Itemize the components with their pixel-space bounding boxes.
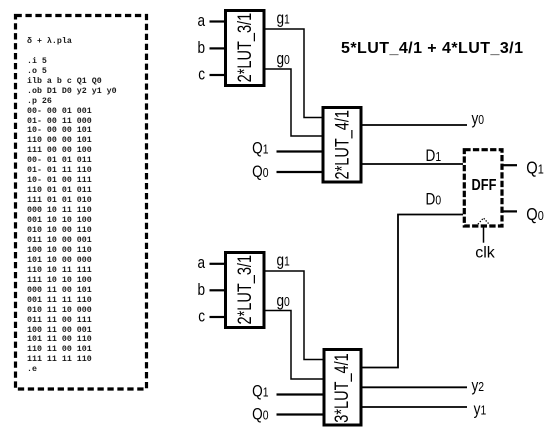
wire U4 output D0 to DFF <box>363 215 464 368</box>
wire U1 g0 output to U2 input 2 <box>266 69 322 136</box>
svg-text:D0: D0 <box>426 190 442 209</box>
svg-text:Q0: Q0 <box>252 163 269 182</box>
svg-text:Q0: Q0 <box>526 205 544 224</box>
wire clk stub <box>483 227 485 243</box>
svg-text:y2: y2 <box>472 376 485 395</box>
svg-text:Q1: Q1 <box>252 139 268 158</box>
LUT U4 box (2*LUT_3/1 bottom) <box>226 253 265 328</box>
svg-text:Q1: Q1 <box>526 158 544 177</box>
wire U1 g1 output to U2 input 1 <box>266 29 322 118</box>
DFF U3 dashed box <box>464 150 502 226</box>
svg-text:c: c <box>198 65 205 84</box>
svg-text:Q0: Q0 <box>252 405 269 424</box>
wire c to U4 <box>210 316 225 318</box>
svg-text:b: b <box>197 39 205 58</box>
svg-text:D1: D1 <box>426 147 442 166</box>
svg-text:2*LUT_3/1: 2*LUT_3/1 <box>234 255 255 325</box>
svg-text:Q1: Q1 <box>252 382 268 401</box>
svg-text:y1: y1 <box>474 400 487 419</box>
svg-text:2*LUT_3/1: 2*LUT_3/1 <box>234 13 255 83</box>
svg-text:a: a <box>197 12 205 31</box>
svg-text:g0: g0 <box>276 50 290 69</box>
wire U4 g1 output to U5 input 1 <box>266 271 323 360</box>
LUT U1 box (2*LUT_3/1 top) <box>226 11 265 86</box>
svg-text:DFF: DFF <box>472 177 497 195</box>
svg-text:g0: g0 <box>276 292 290 311</box>
wire a to U1 <box>210 20 225 22</box>
PLA listing dashed frame <box>16 16 147 390</box>
wire U2 output y0 <box>363 124 468 126</box>
svg-text:2*LUT_4/1: 2*LUT_4/1 <box>331 110 352 180</box>
wire Q0 to U2 input 4 <box>277 171 322 173</box>
LUT U2 box (2*LUT_4/1) <box>323 108 361 183</box>
wire Q1 to U5 input 3 <box>277 393 323 395</box>
wire DFF output Q1 stub <box>502 164 517 166</box>
svg-text:3*LUT_4/1: 3*LUT_4/1 <box>331 353 352 423</box>
wire c to U1 <box>210 74 225 76</box>
wire b to U1 <box>210 47 225 49</box>
wire b to U4 <box>210 289 225 291</box>
PLA listing text <box>27 37 117 375</box>
wire Q0 to U5 input 4 <box>277 413 323 415</box>
wire U5 output y2 <box>363 386 468 388</box>
svg-text:5*LUT_4/1 + 4*LUT_3/1: 5*LUT_4/1 + 4*LUT_3/1 <box>341 40 523 57</box>
svg-text:g1: g1 <box>276 251 289 270</box>
svg-text:c: c <box>198 307 205 326</box>
svg-text:y0: y0 <box>472 110 485 129</box>
DFF clock triangle <box>476 218 491 226</box>
svg-text:b: b <box>197 281 205 300</box>
wire U4 g0 output to U5 input 2 <box>266 311 323 380</box>
wire Q1 to U2 input 3 <box>277 150 322 152</box>
wire U2 output D1 to DFF <box>363 163 464 165</box>
wire DFF output Q0 stub <box>502 210 517 212</box>
svg-text:a: a <box>197 254 205 273</box>
wire U5 output y1 <box>363 406 468 408</box>
LUT U5 box (3*LUT_4/1) <box>324 350 361 426</box>
svg-text:g1: g1 <box>276 9 289 28</box>
wire a to U4 <box>210 263 225 265</box>
svg-text:clk: clk <box>475 245 496 262</box>
